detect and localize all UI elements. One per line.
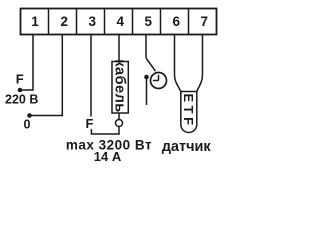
svg-text:5: 5 <box>145 14 153 29</box>
svg-text:4: 4 <box>117 14 125 29</box>
svg-text:кабель: кабель <box>112 59 128 112</box>
svg-text:220 В: 220 В <box>5 93 38 107</box>
svg-text:ETF: ETF <box>181 93 196 128</box>
svg-text:0: 0 <box>24 118 31 132</box>
svg-text:3: 3 <box>89 14 97 29</box>
svg-text:F: F <box>16 72 24 87</box>
svg-text:1: 1 <box>31 14 39 29</box>
svg-text:6: 6 <box>173 14 181 29</box>
svg-text:датчик: датчик <box>162 139 212 155</box>
svg-text:7: 7 <box>201 14 209 29</box>
svg-text:2: 2 <box>61 14 69 29</box>
svg-text:F: F <box>86 116 94 131</box>
svg-text:14 А: 14 А <box>94 149 122 164</box>
